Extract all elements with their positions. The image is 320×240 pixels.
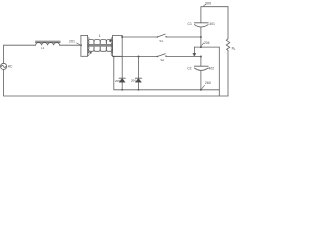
svg-text:C2: C2 [187, 67, 191, 71]
wire: source bottom lead [3, 70, 5, 97]
svg-text:205: 205 [115, 79, 120, 83]
svg-text:S2: S2 [160, 58, 164, 62]
svg-text:L1: L1 [41, 46, 45, 50]
wire: source top lead and top-left rail [4, 45, 36, 63]
wire: row1 from winding to switch S1 [122, 36, 157, 38]
inductor L1 [35, 41, 60, 45]
wire: bus node B to capacitor C2 [200, 57, 202, 67]
AC source V1 [1, 63, 7, 69]
svg-text:L: L [234, 47, 236, 51]
transformer T1 core and horizontal windings [88, 40, 113, 54]
wire: row2 from winding bottom to switch S2 [113, 56, 158, 58]
node A dot [200, 36, 202, 38]
node: box top junction dot [200, 46, 202, 48]
svg-text:1: 1 [99, 34, 101, 38]
svg-text:402: 402 [209, 67, 215, 71]
svg-text:201: 201 [69, 39, 75, 43]
box 204 left edge with arrow [193, 47, 196, 56]
svg-text:C1: C1 [188, 22, 192, 26]
transformer T1 right winding [111, 35, 122, 56]
node: diode D1 to rail dot [121, 89, 123, 91]
capacitor C1 [194, 7, 208, 38]
svg-text:AC: AC [8, 64, 13, 68]
wire: switch S1 to node A [167, 36, 201, 38]
capacitor C2 [194, 66, 208, 90]
svg-text:401: 401 [209, 22, 215, 26]
switch S1 [157, 34, 167, 38]
wire: resistor to bottom rail [227, 50, 229, 96]
switch S2 [157, 54, 167, 58]
node: diode D2 to rail dot [138, 89, 140, 91]
wire: secondary ground rail [114, 89, 220, 91]
svg-text:206: 206 [131, 79, 136, 83]
wire: inductor to transformer [60, 44, 81, 46]
wire: top rail [201, 6, 228, 8]
wire: switch S2 to node B [167, 56, 201, 58]
transformer T1 left winding [81, 35, 89, 56]
wire: right vertical to resistor [227, 7, 229, 39]
svg-text:204: 204 [204, 41, 210, 45]
node: secondary return junction dot [113, 56, 115, 58]
box 204 top edge [194, 46, 219, 48]
wire: secondary return lead [113, 57, 115, 90]
wire: bottom rail [4, 95, 228, 97]
box 204 right edge [218, 47, 220, 96]
wire: bus node A to box top [200, 37, 202, 47]
resistor RL [226, 39, 229, 51]
node: diode D2 tap dot [138, 56, 140, 58]
diode D1 [119, 57, 125, 90]
node: secondary top tap dot [121, 36, 123, 38]
svg-text:300: 300 [205, 1, 211, 5]
svg-text:260: 260 [205, 81, 211, 85]
svg-text:S1: S1 [159, 39, 163, 43]
node: primary input dot [80, 44, 82, 46]
node: bus to bottom rail dot [200, 89, 202, 91]
node B dot [200, 56, 202, 58]
diode D2 [135, 57, 141, 90]
